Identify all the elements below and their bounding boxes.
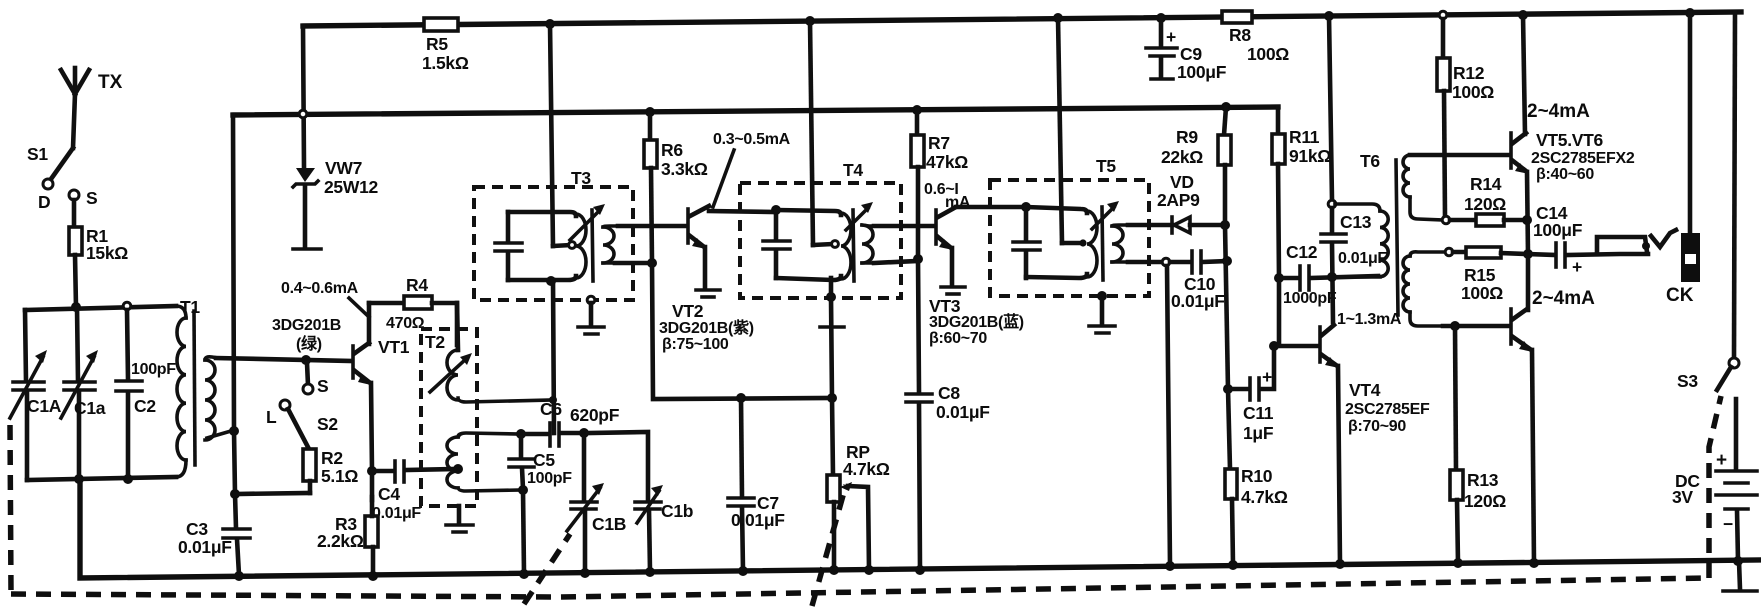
svg-text:3DG201B(蓝): 3DG201B(蓝) — [929, 312, 1024, 331]
ground on T5 shield — [1089, 291, 1115, 333]
wire bottom line of input tank — [27, 474, 176, 484]
svg-text:C4: C4 — [378, 484, 400, 504]
wire T4 secondary bottom to bias node — [874, 261, 916, 263]
svg-text:β:70~90: β:70~90 — [1348, 418, 1406, 435]
svg-text:0.01μF: 0.01μF — [1171, 291, 1225, 311]
wire left branch of top rail down to zener — [299, 26, 307, 166]
svg-text:120Ω: 120Ω — [1464, 491, 1506, 511]
resistor R1 15k — [69, 200, 128, 307]
capacitor C3 0.01uF — [178, 519, 250, 581]
svg-text:D: D — [38, 192, 50, 212]
svg-text:β:60~70: β:60~70 — [929, 330, 987, 347]
capacitor C6 620pF — [525, 399, 620, 446]
capacitor C1A (variable) — [10, 310, 62, 480]
resistor R15 100 ohm — [1445, 247, 1527, 303]
svg-text:3DG201B: 3DG201B — [272, 317, 341, 334]
svg-text:T5: T5 — [1096, 156, 1116, 176]
svg-text:T6: T6 — [1360, 151, 1380, 171]
capacitor C2 100pF — [116, 310, 176, 479]
wire top supply rail — [303, 12, 1741, 26]
wire feed from top rail to T6 / VT4 collector — [1324, 11, 1336, 208]
svg-text:R10: R10 — [1241, 466, 1273, 486]
svg-text:3V: 3V — [1672, 487, 1693, 507]
switch S3 — [1677, 12, 1739, 391]
resistor R6 3.3k — [644, 107, 708, 262]
transformer T6 primary winding — [1335, 151, 1388, 277]
svg-text:1μF: 1μF — [1243, 423, 1274, 443]
svg-text:+: + — [1262, 367, 1272, 387]
wire dashed gang diagonal to RP — [812, 485, 846, 606]
transformer T2 primary winding — [430, 303, 552, 402]
wire left dashed gang line (C1A linkage) — [10, 425, 11, 592]
transformer T4 secondary coil — [862, 225, 876, 263]
svg-text:0.4~0.6mA: 0.4~0.6mA — [281, 280, 359, 297]
wire T3 secondary to VT2 base — [618, 224, 686, 229]
svg-text:0.01μF: 0.01μF — [936, 402, 990, 422]
wire T4 secondary top to VT3 base — [874, 224, 934, 229]
svg-text:T3: T3 — [571, 168, 591, 188]
node top line of input tank — [25, 302, 176, 312]
switch S1 — [27, 144, 97, 212]
label 1~1.3mA — [1337, 311, 1402, 328]
label 0.6~1mA — [924, 181, 971, 211]
svg-text:22kΩ: 22kΩ — [1161, 147, 1203, 167]
wire vertical bus x=233 from rail2 down to C3 — [229, 115, 240, 528]
svg-text:R7: R7 — [928, 133, 950, 153]
svg-text:C1a: C1a — [74, 398, 106, 418]
wire T6 lower secondary to VT6 base — [1443, 321, 1509, 331]
svg-text:100pF: 100pF — [527, 470, 572, 487]
svg-text:S1: S1 — [27, 144, 48, 164]
wire feed from top rail into T5 coil tap — [1053, 13, 1087, 247]
transformer T2 secondary winding — [447, 433, 522, 491]
svg-text:1~1.3mA: 1~1.3mA — [1337, 311, 1402, 328]
svg-text:S2: S2 — [317, 414, 338, 434]
capacitor C1a (variable) — [61, 307, 106, 479]
switch S2 — [266, 363, 338, 449]
resistor R10 4.7k — [1225, 389, 1288, 570]
wire T3 tank bottom down to C6 / T2 primary — [549, 280, 557, 433]
label VT5 VT6 — [1527, 101, 1635, 309]
svg-text:VT2: VT2 — [672, 301, 704, 321]
wire feed from top rail into T3 coil tap — [545, 19, 575, 248]
capacitor C1b (variable, gang) — [588, 432, 693, 577]
svg-text:R8: R8 — [1229, 25, 1251, 45]
svg-text:R9: R9 — [1176, 127, 1198, 147]
capacitor C9 100uF (electrolytic) — [1146, 13, 1227, 82]
capacitor C11 1uF (electrolytic) — [1228, 341, 1279, 443]
svg-text:100μF: 100μF — [1533, 220, 1583, 240]
zener diode VW7 25W12 — [293, 158, 379, 249]
svg-text:VD: VD — [1170, 172, 1194, 192]
svg-text:TX: TX — [98, 72, 123, 93]
transistor VT2 3DG201B (purple) — [659, 206, 754, 353]
svg-text:100Ω: 100Ω — [1452, 82, 1494, 102]
svg-text:15kΩ: 15kΩ — [86, 243, 128, 263]
svg-text:S: S — [86, 188, 97, 208]
transformer T6 upper secondary winding — [1403, 155, 1443, 220]
svg-text:2~4mA: 2~4mA — [1527, 101, 1590, 122]
resistor R14 120 ohm — [1442, 174, 1532, 226]
resistor R11 91k — [1272, 107, 1331, 346]
svg-text:470Ω: 470Ω — [386, 315, 425, 332]
transformer T3 shield box — [474, 168, 633, 300]
svg-text:C12: C12 — [1286, 242, 1318, 262]
svg-text:91kΩ: 91kΩ — [1289, 146, 1331, 166]
capacitor C12 1000pF — [1279, 242, 1378, 307]
transformer T6 core — [1396, 160, 1398, 315]
wire T3 secondary bottom / R6 node down to AGC line — [615, 258, 833, 403]
capacitor C8 0.01uF — [906, 259, 990, 575]
wire dashed gang linkage to S3 — [1709, 396, 1721, 578]
transformer T4 tank top and bottom lines — [776, 210, 841, 280]
svg-text:R15: R15 — [1464, 265, 1496, 285]
svg-text:β:40~60: β:40~60 — [1536, 166, 1594, 183]
svg-text:2AP9: 2AP9 — [1157, 190, 1200, 210]
wire T4 tank bottom to shield ground and down to RP — [820, 278, 844, 475]
battery DC 3V — [1672, 399, 1757, 566]
svg-text:T4: T4 — [843, 160, 863, 180]
svg-text:4.7kΩ: 4.7kΩ — [1241, 487, 1288, 507]
resistor R7 47k — [911, 105, 968, 264]
resistor R5 1.5k (on top rail) — [422, 18, 469, 73]
svg-text:2SC2785EFX2: 2SC2785EFX2 — [1531, 150, 1635, 167]
svg-text:S3: S3 — [1677, 371, 1698, 391]
svg-text:100Ω: 100Ω — [1247, 44, 1289, 64]
resistor R13 120 ohm — [1450, 326, 1506, 568]
svg-text:R6: R6 — [661, 140, 683, 160]
svg-text:0.3~0.5mA: 0.3~0.5mA — [713, 131, 791, 148]
transformer T5 tank capacitor — [1013, 202, 1040, 278]
transformer T3 secondary coil — [603, 226, 620, 263]
resistor R4 470 ohm — [369, 275, 457, 345]
svg-text:100μF: 100μF — [1177, 62, 1227, 82]
svg-text:−: − — [1723, 514, 1733, 534]
svg-text:4.7kΩ: 4.7kΩ — [843, 459, 890, 479]
wire R2 bottom to x=233 bus — [235, 493, 310, 494]
svg-text:VT3: VT3 — [929, 296, 961, 316]
transformer T4 shield box — [740, 160, 901, 298]
svg-text:T2: T2 — [425, 332, 445, 352]
svg-text:C1b: C1b — [661, 501, 693, 521]
svg-text:R14: R14 — [1470, 174, 1502, 194]
svg-text:C11: C11 — [1243, 403, 1274, 423]
svg-text:R2: R2 — [321, 448, 343, 468]
transformer T3 tank capacitor — [495, 212, 522, 280]
svg-text:R13: R13 — [1467, 470, 1499, 490]
svg-text:C1B: C1B — [592, 514, 626, 534]
svg-text:100pF: 100pF — [131, 361, 176, 378]
capacitor C14 100uF (electrolytic) — [1528, 203, 1650, 277]
svg-text:0.01μF: 0.01μF — [731, 510, 785, 530]
svg-text:25W12: 25W12 — [324, 177, 379, 197]
earphone plug symbol — [1651, 230, 1676, 247]
transformer T3 tank top and bottom lines — [508, 212, 576, 286]
transformer T6 lower secondary winding — [1403, 252, 1445, 326]
svg-text:620pF: 620pF — [570, 405, 620, 425]
transformer T5 primary coil with tuning arrow — [1087, 201, 1119, 280]
svg-text:1.5kΩ: 1.5kΩ — [422, 53, 469, 73]
transistor VT6 2SC2785EF — [1511, 254, 1539, 568]
transformer T1 — [176, 297, 231, 477]
capacitor C10 0.01uF — [1128, 251, 1232, 311]
svg-text:100Ω: 100Ω — [1461, 283, 1503, 303]
jack CK — [1666, 8, 1700, 306]
wire feed from top rail to VT5 collector — [1518, 10, 1528, 134]
wire detector node down to C11 — [1223, 225, 1233, 394]
wire C10 node down to ground rail — [1165, 266, 1175, 571]
transformer T5 tank top and bottom lines — [1026, 207, 1087, 278]
diode VD 2AP9 — [1128, 172, 1230, 233]
svg-text:C1A: C1A — [27, 396, 62, 416]
wire T6 upper secondary to VT5 base — [1410, 153, 1509, 158]
svg-text:VT1: VT1 — [378, 337, 410, 357]
ground under T2 — [446, 506, 473, 532]
transformer T3 primary coil with tuning arrow — [570, 204, 605, 281]
svg-text:47kΩ: 47kΩ — [926, 152, 968, 172]
svg-text:CK: CK — [1666, 285, 1694, 306]
ground on T3 shield — [578, 296, 604, 334]
resistor R9 22k — [1161, 102, 1231, 225]
svg-text:3.3kΩ: 3.3kΩ — [661, 159, 708, 179]
capacitor C4 0.01uF — [367, 461, 456, 522]
resistor R3 2.2k — [317, 471, 378, 581]
capacitor C13 0.01uF — [1321, 208, 1387, 322]
potentiometer RP 4.7k — [827, 442, 890, 575]
transistor VT3 3DG201B (blue) — [929, 207, 1024, 347]
svg-text:VT4: VT4 — [1349, 380, 1381, 400]
wire feed from top rail into T4 coil tap — [805, 16, 838, 247]
svg-text:+: + — [1572, 257, 1582, 277]
svg-text:β:75~100: β:75~100 — [662, 336, 729, 353]
svg-text:VT5.VT6: VT5.VT6 — [1536, 130, 1604, 150]
svg-text:R11: R11 — [1289, 127, 1320, 147]
antenna TX — [61, 68, 123, 148]
svg-text:R12: R12 — [1453, 63, 1485, 83]
transformer T5 secondary coil — [1112, 225, 1130, 262]
wire second supply rail — [233, 107, 1278, 115]
svg-text:C2: C2 — [134, 396, 156, 416]
resistor R8 100 ohm (on top rail) — [1222, 11, 1289, 64]
svg-text:C13: C13 — [1340, 212, 1372, 232]
wire VT3 collector to T5 — [956, 205, 1026, 210]
svg-text:120Ω: 120Ω — [1464, 194, 1506, 214]
transistor VT1 3DG201B (green) — [272, 303, 410, 471]
resistor R2 5.1 ohm — [303, 448, 358, 493]
transistor VT5 2SC2785EF — [1511, 133, 1533, 259]
transformer T2 (dashed shield box) — [421, 329, 477, 506]
svg-text:0.01μF: 0.01μF — [178, 537, 232, 557]
svg-text:VW7: VW7 — [325, 158, 362, 178]
svg-text:(绿): (绿) — [296, 334, 322, 353]
transformer T5 shield box — [990, 156, 1149, 296]
label 0.4~0.6mA with pointer — [281, 280, 369, 317]
wire VT2 collector to T4 — [709, 211, 776, 212]
capacitor C1B (variable, gang) — [567, 428, 626, 578]
svg-text:5.1Ω: 5.1Ω — [321, 466, 358, 486]
transformer T4 primary coil with tuning arrow — [841, 202, 873, 281]
label 0.3~0.5mA with pointer — [713, 131, 791, 207]
svg-text:1000pF: 1000pF — [1283, 290, 1337, 307]
svg-text:R4: R4 — [406, 275, 428, 295]
svg-text:R5: R5 — [426, 34, 448, 54]
capacitor C7 0.01uF — [728, 398, 785, 576]
svg-text:2~4mA: 2~4mA — [1532, 288, 1595, 309]
svg-text:+: + — [1716, 450, 1727, 471]
capacitor C5 100pF — [509, 429, 572, 579]
svg-text:C9: C9 — [1180, 44, 1202, 64]
transformer T4 tank capacitor — [763, 205, 790, 278]
svg-text:L: L — [266, 407, 277, 427]
svg-text:C8: C8 — [938, 383, 960, 403]
svg-text:2.2kΩ: 2.2kΩ — [317, 531, 364, 551]
wire bottom dashed gang border — [11, 578, 1709, 597]
svg-text:3DG201B(紫): 3DG201B(紫) — [659, 318, 754, 337]
ground below battery — [1723, 561, 1757, 591]
svg-text:S: S — [317, 376, 328, 396]
svg-text:C5: C5 — [533, 450, 555, 470]
svg-text:+: + — [1166, 27, 1176, 47]
svg-text:C3: C3 — [186, 519, 208, 539]
wire T1 secondary top to VT1 base — [216, 355, 352, 365]
resistor R12 100 ohm — [1437, 11, 1494, 216]
wire dashed gang diagonal to C1B — [524, 534, 570, 604]
svg-text:2SC2785EF: 2SC2785EF — [1345, 401, 1430, 418]
transistor VT4 2SC2785EF — [1320, 325, 1430, 569]
wire bottom ground rail — [80, 480, 1759, 578]
